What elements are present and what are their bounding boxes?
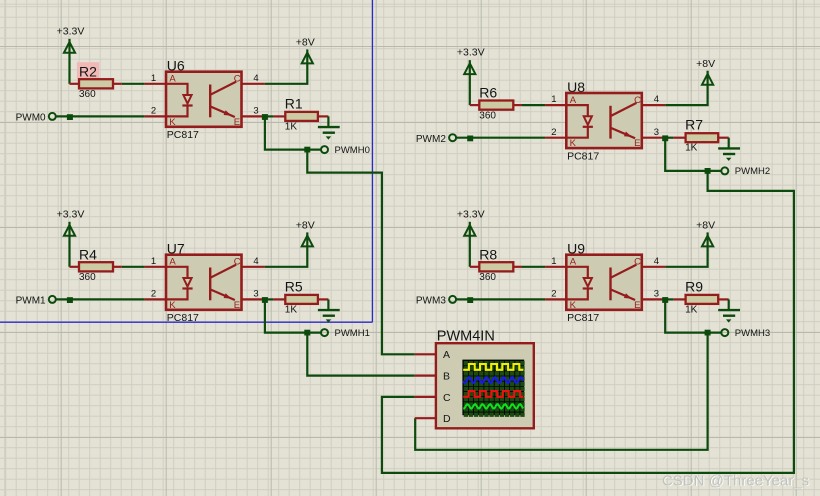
waveform channel C (red)	[463, 391, 523, 397]
wire pin3 to 1K resistor	[265, 298, 274, 300]
svg-text:2: 2	[151, 106, 156, 117]
wire pin4 to +8V	[265, 63, 307, 84]
svg-text:A: A	[169, 74, 176, 85]
wire pin3 to 1K resistor	[665, 298, 674, 300]
power +8V (U8 channel)	[696, 58, 715, 85]
opto-coupler U6 PC817	[145, 58, 265, 142]
svg-text:PWMH0: PWMH0	[335, 145, 370, 156]
svg-text:E: E	[634, 300, 640, 311]
junction PWMH3	[705, 330, 711, 336]
svg-text:2: 2	[151, 289, 156, 300]
svg-text:PWM1: PWM1	[16, 296, 46, 307]
opto-coupler U8 PC817	[545, 79, 665, 163]
terminal PWMH2	[721, 166, 770, 177]
svg-text:R4: R4	[79, 246, 97, 262]
wire +3.3V to resistor	[469, 236, 471, 267]
svg-text:+3.3V: +3.3V	[457, 208, 485, 220]
wire +3.3V to resistor	[68, 236, 70, 267]
sheet border horizontal	[0, 321, 372, 323]
svg-text:A: A	[443, 349, 450, 361]
svg-text:C: C	[443, 392, 451, 404]
junction PWM1	[67, 297, 73, 303]
power +8V (U7 channel)	[296, 220, 315, 247]
svg-text:R5: R5	[285, 278, 303, 294]
svg-text:3: 3	[654, 289, 659, 300]
svg-text:A: A	[570, 95, 577, 106]
wire PWMH1 to scope pin B	[307, 333, 414, 376]
terminal PWM2	[416, 134, 456, 145]
terminal PWMH3	[721, 328, 770, 339]
wire pin4 to +8V	[265, 246, 307, 267]
junction PWM2	[467, 136, 473, 142]
power +3.3V (U7 channel)	[57, 208, 85, 236]
svg-text:PWMH3: PWMH3	[735, 328, 770, 339]
wire pin3 to PWMH1	[265, 299, 321, 332]
svg-text:PWM0: PWM0	[16, 113, 46, 124]
power +8V (U6 channel)	[296, 37, 315, 64]
wire pin3 to 1K resistor	[665, 137, 674, 139]
wire pin3 to 1K resistor	[265, 115, 274, 117]
resistor R9 1K	[674, 278, 729, 315]
svg-text:PC817: PC817	[567, 151, 599, 163]
svg-text:K: K	[570, 138, 577, 149]
resistor R5 1K	[273, 278, 328, 315]
wire pin4 to +8V	[665, 246, 707, 267]
svg-text:E: E	[234, 117, 240, 128]
terminal PWM0	[16, 113, 56, 124]
svg-text:+3.3V: +3.3V	[57, 208, 85, 220]
terminal PWMH0	[321, 145, 370, 156]
svg-text:D: D	[443, 413, 451, 425]
svg-text:PWM4IN: PWM4IN	[437, 328, 495, 344]
junction PWMH0	[304, 147, 310, 153]
sheet border vertical	[371, 0, 373, 322]
wire resistor to pin1	[522, 266, 545, 268]
wire pin3 to PWMH0	[265, 116, 321, 149]
wire +3.3V to resistor	[469, 74, 471, 105]
svg-text:360: 360	[79, 89, 96, 100]
svg-text:A: A	[570, 257, 577, 268]
svg-text:C: C	[634, 257, 641, 268]
svg-text:360: 360	[479, 111, 496, 122]
svg-text:PWMH1: PWMH1	[335, 328, 370, 339]
power +3.3V (U6 channel)	[57, 25, 85, 53]
wire PWM input to pin2	[456, 298, 545, 300]
svg-text:E: E	[234, 300, 240, 311]
wire PWMH3 to scope pin D	[415, 333, 707, 450]
resistor R1 1K	[273, 95, 328, 132]
svg-text:4: 4	[253, 256, 258, 267]
svg-text:R8: R8	[479, 246, 497, 262]
junction PWM3	[467, 297, 473, 303]
svg-text:3: 3	[253, 106, 258, 117]
svg-text:+3.3V: +3.3V	[57, 25, 85, 37]
opto-coupler U7 PC817	[145, 241, 265, 325]
wire PWM input to pin2	[456, 137, 545, 139]
svg-text:C: C	[234, 257, 241, 268]
wire pin4 to +8V	[665, 84, 707, 105]
svg-text:C: C	[234, 74, 241, 85]
svg-text:E: E	[634, 138, 640, 149]
watermark	[662, 472, 810, 490]
svg-text:1: 1	[551, 256, 556, 267]
svg-text:3: 3	[253, 289, 258, 300]
terminal PWM3	[416, 296, 456, 307]
svg-text:1: 1	[151, 73, 156, 84]
svg-text:1K: 1K	[285, 304, 298, 315]
junction pin3 U6	[262, 114, 268, 120]
svg-text:4: 4	[654, 94, 659, 105]
svg-text:R7: R7	[685, 117, 703, 133]
terminal PWM1	[16, 296, 56, 307]
svg-text:+3.3V: +3.3V	[457, 47, 485, 59]
wire resistor to pin1	[522, 104, 545, 106]
wire pin3 to PWMH3	[665, 299, 721, 332]
logic analyser PWM4IN	[415, 328, 534, 428]
svg-text:PWM2: PWM2	[416, 134, 446, 145]
wire pin3 to PWMH2	[665, 138, 721, 171]
svg-text:B: B	[443, 371, 450, 383]
svg-text:+8V: +8V	[696, 220, 715, 232]
wire PWMH0 to scope pin A	[307, 150, 414, 355]
junction pin3 U8	[662, 135, 668, 141]
svg-text:R2: R2	[79, 63, 97, 79]
waveform channel D (green)	[463, 404, 523, 408]
svg-text:PC817: PC817	[167, 312, 199, 324]
ground (R5)	[318, 299, 340, 322]
opto-coupler U9 PC817	[545, 241, 665, 325]
terminal PWMH1	[321, 328, 370, 339]
waveform channel A (yellow)	[463, 364, 523, 370]
power +8V (U9 channel)	[696, 220, 715, 247]
svg-text:3: 3	[654, 127, 659, 138]
junction pin3 U9	[662, 297, 668, 303]
svg-text:A: A	[169, 257, 176, 268]
svg-text:1K: 1K	[285, 121, 298, 132]
svg-text:2: 2	[551, 127, 556, 138]
wire +3.3V to resistor	[68, 53, 70, 84]
svg-text:2: 2	[551, 289, 556, 300]
svg-text:K: K	[169, 300, 176, 311]
wire PWMH2 to scope pin C	[382, 171, 794, 473]
junction PWMH2	[705, 168, 711, 174]
resistor R6 360	[470, 85, 522, 122]
wire PWM input to pin2	[56, 298, 145, 300]
svg-text:C: C	[634, 95, 641, 106]
ground (R7)	[718, 138, 740, 161]
svg-text:+8V: +8V	[696, 58, 715, 70]
svg-text:K: K	[570, 300, 577, 311]
svg-text:+8V: +8V	[296, 220, 315, 232]
resistor R7 1K	[674, 117, 729, 154]
svg-text:360: 360	[79, 272, 96, 283]
resistor R8 360	[470, 246, 522, 283]
ground (R1)	[318, 116, 340, 139]
junction PWM0	[67, 114, 73, 120]
svg-text:R6: R6	[479, 85, 497, 101]
svg-text:1K: 1K	[685, 304, 698, 315]
svg-text:1: 1	[151, 256, 156, 267]
svg-text:+8V: +8V	[296, 37, 315, 49]
power +3.3V (U8 channel)	[457, 47, 485, 75]
svg-text:PWM3: PWM3	[416, 296, 446, 307]
svg-text:PWMH2: PWMH2	[735, 166, 770, 177]
junction PWMH1	[304, 330, 310, 336]
svg-text:4: 4	[253, 73, 258, 84]
svg-text:4: 4	[654, 256, 659, 267]
ground (R9)	[718, 299, 740, 322]
svg-text:R1: R1	[285, 95, 303, 111]
svg-text:PC817: PC817	[167, 129, 199, 141]
svg-text:PC817: PC817	[567, 312, 599, 324]
svg-text:R9: R9	[685, 278, 703, 294]
power +3.3V (U9 channel)	[457, 208, 485, 236]
wire resistor to pin1	[122, 83, 145, 85]
svg-text:CSDN @ThreeYear_s: CSDN @ThreeYear_s	[662, 472, 809, 489]
resistor R4 360	[70, 246, 122, 283]
junction pin3 U7	[262, 297, 268, 303]
waveform channel B (blue)	[463, 377, 523, 383]
scope screen	[462, 360, 524, 417]
wire PWM input to pin2	[56, 115, 145, 117]
wire resistor to pin1	[122, 266, 145, 268]
resistor R2 360	[70, 62, 122, 100]
svg-text:1K: 1K	[685, 143, 698, 154]
svg-text:K: K	[169, 117, 176, 128]
svg-text:360: 360	[479, 272, 496, 283]
svg-text:1: 1	[551, 94, 556, 105]
